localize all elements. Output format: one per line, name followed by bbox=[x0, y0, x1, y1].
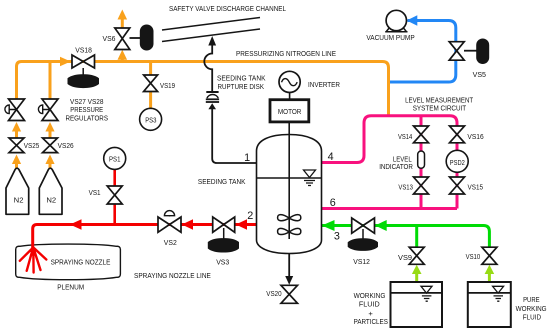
gauge PS1 bbox=[104, 147, 126, 169]
svg-text:VS14: VS14 bbox=[398, 132, 412, 141]
wire: PS1 to VS1 bbox=[113, 170, 116, 187]
svg-text:VS25: VS25 bbox=[24, 141, 40, 150]
wire: light green arrow up to VS9 bbox=[412, 265, 422, 274]
svg-text:VS18: VS18 bbox=[75, 46, 92, 55]
wire: arrow up column2 below regulator bbox=[45, 122, 54, 132]
wire: VS6 to capsule bbox=[130, 37, 141, 39]
svg-text:6: 6 bbox=[330, 197, 336, 209]
wire: light green shaft tank2 to VS10 bbox=[488, 272, 491, 282]
svg-text:VS2: VS2 bbox=[164, 238, 177, 247]
wire: tank drain down bbox=[288, 254, 290, 279]
valve VS15 bbox=[450, 177, 465, 194]
wire: light green shaft tank1 to VS9 bbox=[415, 272, 418, 282]
wire: left branch vertical VS14/VS13 bbox=[420, 116, 423, 209]
wire: blue arrow into vacuum pump bbox=[407, 15, 418, 25]
valve VS6 bbox=[115, 28, 130, 50]
VS3 actuator drum bbox=[223, 228, 225, 239]
svg-text:VS19: VS19 bbox=[160, 81, 175, 90]
svg-text:PLENUM: PLENUM bbox=[57, 282, 84, 291]
wire: second regulator column to bus bbox=[49, 62, 52, 100]
svg-text:VS9: VS9 bbox=[398, 253, 412, 262]
valve VS18 bbox=[72, 55, 95, 68]
svg-text:VACUUM PUMP: VACUUM PUMP bbox=[366, 33, 414, 42]
valve VS3 bbox=[213, 217, 235, 232]
channel line lower bbox=[162, 29, 260, 42]
svg-text:FLUID: FLUID bbox=[359, 299, 380, 308]
svg-text:VS10: VS10 bbox=[466, 252, 481, 261]
svg-text:VS15: VS15 bbox=[468, 183, 484, 192]
wire: VS19 branch down from bus bbox=[149, 62, 152, 110]
wire: arrow up at top of VS6 column bbox=[118, 10, 128, 20]
wire: blue vacuum pump line bbox=[390, 21, 456, 83]
svg-text:VS12: VS12 bbox=[353, 257, 370, 266]
wire: pressurizing nitrogen bus with left and right drops bbox=[17, 62, 389, 115]
svg-text:VS16: VS16 bbox=[467, 132, 483, 141]
tank liquid level line bbox=[257, 177, 322, 179]
wire: safety channel line with hop over orange bus bbox=[204, 45, 212, 91]
vacuum pump base bbox=[385, 26, 407, 32]
valve VS2 diaphragm dome bbox=[169, 213, 171, 217]
wire: VS5 to capsule bbox=[464, 50, 477, 52]
wire: VS9 branch down bbox=[415, 226, 418, 248]
wire: arrow up below VS6 bbox=[118, 50, 128, 60]
valve VS12 bbox=[352, 218, 375, 233]
wire: arrow on bus before VS18 bbox=[60, 57, 71, 66]
wire: green main horizontal into tank node 3 bbox=[322, 226, 490, 248]
wire: VS1 down to main red line bbox=[113, 204, 116, 225]
wire: arrow up column1 below VS25 bbox=[12, 155, 21, 165]
svg-text:PS1: PS1 bbox=[109, 155, 121, 164]
wire: green arrow into tank node 3 bbox=[322, 220, 335, 231]
svg-text:VS13: VS13 bbox=[398, 183, 413, 192]
svg-text:MOTOR: MOTOR bbox=[278, 107, 302, 116]
wire: black arrow up into rupture disk bbox=[208, 103, 216, 109]
wire: black arrow down on drain bbox=[285, 276, 293, 285]
svg-text:PARTICLES: PARTICLES bbox=[354, 317, 388, 326]
svg-text:INVERTER: INVERTER bbox=[308, 80, 340, 89]
svg-text:SAFETY VALVE DISCHARGE CHANNEL: SAFETY VALVE DISCHARGE CHANNEL bbox=[169, 4, 286, 13]
svg-text:VS20: VS20 bbox=[266, 289, 281, 298]
VS18 actuator drum bbox=[82, 68, 84, 76]
N2 bottle 1 bbox=[6, 168, 29, 214]
stirrer propeller upper bbox=[278, 215, 301, 221]
valve VS10 bbox=[482, 247, 497, 264]
VS5 accumulator capsule bbox=[476, 39, 489, 65]
spraying nozzle fan bbox=[20, 248, 47, 273]
pressure regulator VS28 bbox=[38, 99, 58, 121]
stirrer shaft bbox=[288, 122, 290, 239]
pressure regulator VS27 bbox=[5, 99, 25, 121]
svg-text:SYSTEM CIRCUIT: SYSTEM CIRCUIT bbox=[413, 104, 467, 113]
wire: column2 VS26-regulator shaft bbox=[49, 131, 52, 139]
svg-text:VS26: VS26 bbox=[58, 141, 74, 150]
level indicator capsule bbox=[418, 151, 425, 168]
pure working fluid tank bbox=[468, 282, 511, 327]
valve VS2 bbox=[158, 217, 181, 232]
svg-text:N2: N2 bbox=[46, 195, 56, 204]
valve VS26 bbox=[43, 138, 58, 153]
wire: rupture disk to tank node 1 bbox=[212, 108, 256, 164]
valve VS1 bbox=[107, 186, 122, 204]
svg-text:SEEDING TANK: SEEDING TANK bbox=[198, 177, 246, 186]
wire: VS6 column bus to valve bbox=[121, 57, 124, 62]
svg-text:RUPTURE DISK: RUPTURE DISK bbox=[218, 82, 265, 91]
svg-text:PSD2: PSD2 bbox=[450, 158, 465, 167]
wire: bottom horizontal back to tank node 6 bbox=[322, 207, 458, 210]
wire: column1 VS25-regulator shaft bbox=[15, 131, 18, 139]
svg-text:PRESSURIZING NITROGEN LINE: PRESSURIZING NITROGEN LINE bbox=[236, 49, 336, 58]
wire: red arrow near tank node 2 bbox=[236, 219, 247, 230]
svg-text:3: 3 bbox=[334, 231, 340, 243]
svg-text:1: 1 bbox=[244, 152, 250, 164]
svg-text:VS5: VS5 bbox=[473, 70, 486, 79]
valve VS9 bbox=[409, 247, 424, 264]
valve VS20 bbox=[281, 285, 298, 303]
wire: arrow up column1 below regulator bbox=[12, 122, 21, 132]
N2 bottle 2 bbox=[39, 168, 62, 214]
svg-text:SPRAYING NOZZLE: SPRAYING NOZZLE bbox=[51, 257, 111, 266]
svg-text:VS3: VS3 bbox=[216, 258, 229, 267]
rupture disk symbol bbox=[206, 92, 219, 102]
svg-text:INDICATOR: INDICATOR bbox=[379, 162, 413, 171]
PSD2 gauge bbox=[446, 150, 468, 172]
channel line upper bbox=[162, 18, 260, 31]
wire: green arrow into VS12 bbox=[375, 220, 387, 231]
plenum vessel bbox=[16, 244, 121, 280]
svg-text:4: 4 bbox=[328, 151, 334, 163]
wire: column2 bottle-VS26 shaft bbox=[49, 163, 52, 169]
svg-text:FLUID: FLUID bbox=[523, 313, 542, 322]
wire: red main horizontal with corner down to nozzle bbox=[33, 225, 257, 249]
valve VS16 bbox=[450, 126, 465, 143]
wire: VS6 column above valve bbox=[121, 18, 124, 28]
svg-text:2: 2 bbox=[247, 210, 253, 222]
wire: column1 bottle-VS25 shaft bbox=[15, 163, 18, 169]
wire: red arrow between VS2 and VS3 bbox=[182, 219, 193, 230]
VS12 actuator drum bbox=[362, 229, 364, 239]
wire: node 4 line up to circuit top loop bbox=[322, 116, 458, 209]
svg-text:PURE: PURE bbox=[523, 295, 540, 304]
gauge PS3 bbox=[140, 108, 162, 130]
wire: inverter-motor stem bbox=[289, 93, 291, 100]
svg-text:REGULATORS: REGULATORS bbox=[66, 113, 109, 122]
svg-text:SPRAYING NOZZLE LINE: SPRAYING NOZZLE LINE bbox=[134, 271, 211, 280]
valve VS5 bbox=[449, 42, 464, 61]
working fluid + particles tank bbox=[391, 282, 443, 327]
svg-text:VS6: VS6 bbox=[103, 34, 116, 43]
svg-text:VS1: VS1 bbox=[89, 188, 101, 197]
inverter bbox=[279, 71, 300, 92]
svg-text:PS3: PS3 bbox=[145, 115, 156, 124]
VS6 accumulator capsule bbox=[140, 25, 154, 51]
valve VS14 bbox=[414, 126, 429, 143]
wire: black arrow up to safety channel bbox=[208, 36, 216, 46]
valve VS13 bbox=[414, 177, 429, 194]
seeding tank vessel bbox=[257, 135, 322, 254]
motor bbox=[270, 100, 309, 122]
safety valve discharge channel bbox=[162, 18, 260, 42]
tank water level symbol bbox=[304, 170, 316, 186]
valve VS19 bbox=[144, 75, 158, 92]
wire: light green arrow up to VS10 bbox=[485, 265, 495, 274]
stirrer propeller lower bbox=[278, 228, 301, 234]
svg-text:N2: N2 bbox=[14, 195, 24, 204]
wire: arrow up column2 below VS26 bbox=[45, 155, 54, 165]
valve VS25 bbox=[9, 138, 24, 153]
vacuum pump circle bbox=[386, 10, 406, 30]
wire: red arrow left of VS1 junction bbox=[70, 219, 82, 230]
